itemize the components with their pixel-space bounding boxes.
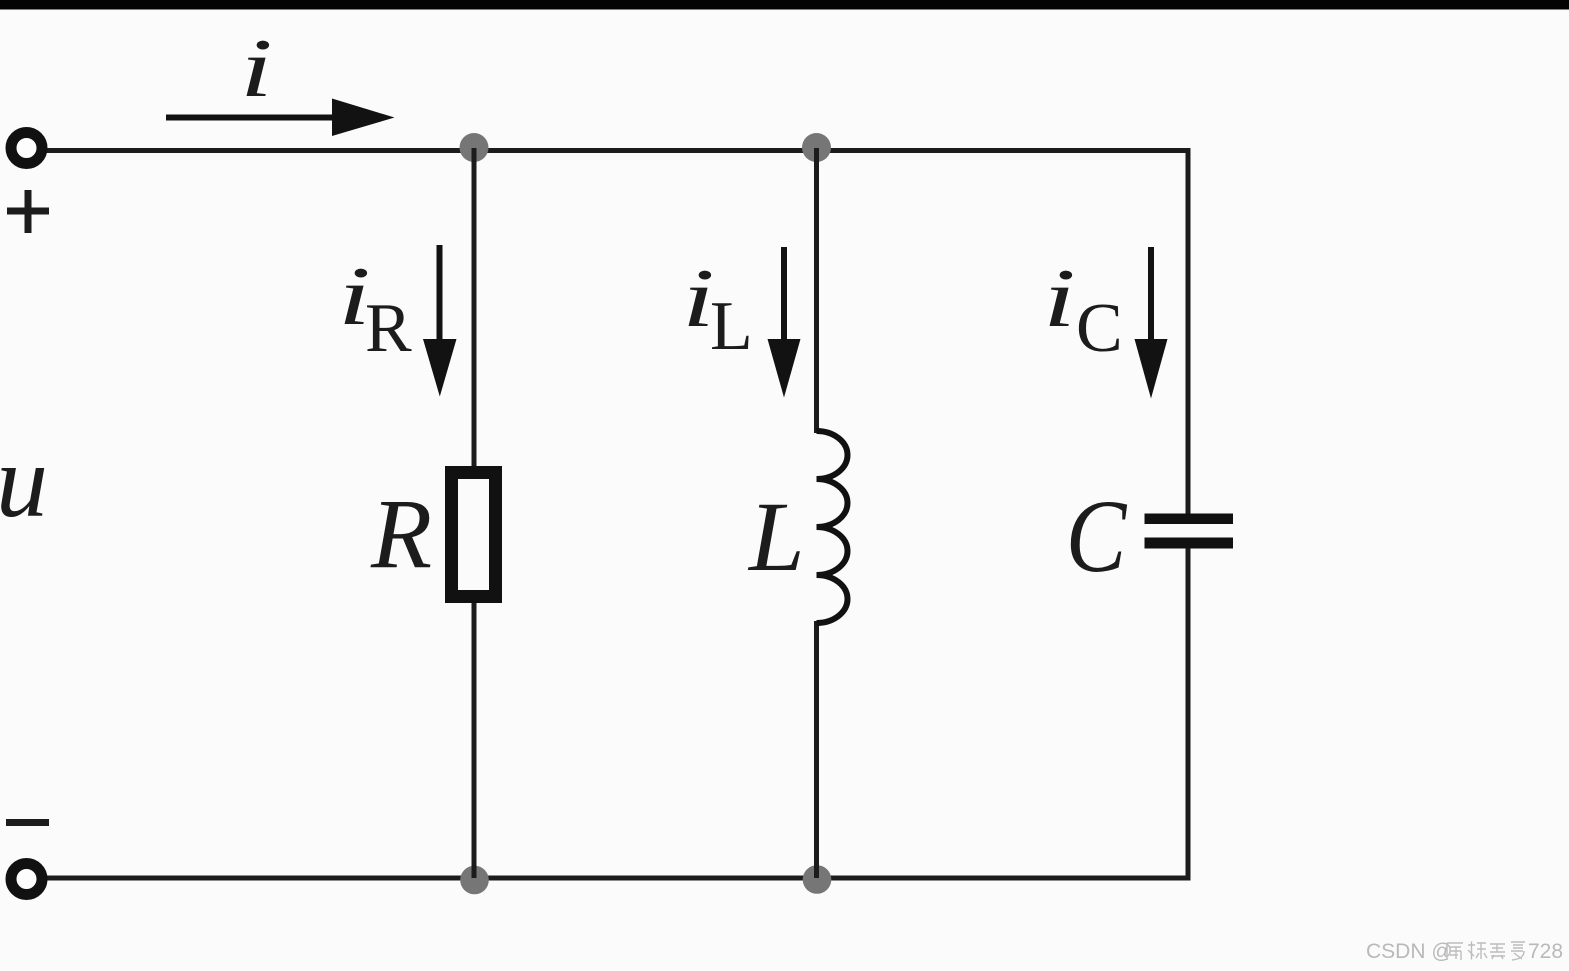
watermark CJK glyphs (drawn) bbox=[1447, 942, 1525, 961]
node B: top junction dot of L branch bbox=[802, 133, 831, 162]
current iC arrow bbox=[1148, 247, 1154, 345]
wire: C branch upper segment (right side) bbox=[1186, 148, 1191, 514]
inductor L (4 arc coil) bbox=[817, 431, 848, 623]
svg-text:L: L bbox=[710, 288, 753, 365]
current iL arrow bbox=[781, 247, 787, 345]
wire: L branch lower segment bbox=[814, 621, 819, 878]
current iR arrow bbox=[437, 245, 443, 345]
polarity mark: + bbox=[7, 190, 49, 233]
resistor R (rectangle symbol) bbox=[452, 473, 496, 597]
svg-text:C: C bbox=[1076, 290, 1123, 367]
svg-text:i: i bbox=[240, 22, 273, 115]
wire: top horizontal bus from source + terminal to top-right corner bbox=[46, 148, 1191, 153]
svg-text:CSDN @: CSDN @ bbox=[1366, 940, 1453, 963]
svg-text:R: R bbox=[365, 290, 412, 367]
polarity mark: - bbox=[6, 819, 49, 826]
wire: L branch upper segment bbox=[814, 148, 819, 433]
terminal: + source terminal (top-left) bbox=[11, 133, 42, 164]
svg-text:u: u bbox=[0, 424, 48, 539]
node C: bottom junction dot of R branch bbox=[460, 866, 489, 895]
top black banner bar bbox=[0, 0, 1569, 10]
wire: R branch lower segment bbox=[472, 603, 477, 879]
svg-text:L: L bbox=[747, 481, 805, 592]
node D: bottom junction dot of L branch bbox=[803, 865, 832, 894]
terminal: - source terminal (bottom-left) bbox=[11, 864, 42, 895]
svg-text:728: 728 bbox=[1528, 940, 1563, 963]
svg-text:C: C bbox=[1066, 479, 1128, 594]
wire: C branch lower segment bbox=[1186, 548, 1191, 878]
wire: bottom horizontal bus from source - terminal to bottom-right corner bbox=[46, 876, 1191, 881]
svg-text:i: i bbox=[1043, 252, 1076, 345]
svg-text:R: R bbox=[370, 478, 432, 589]
wire: R branch upper segment bbox=[472, 148, 477, 467]
node A: top junction dot of R branch bbox=[460, 133, 489, 162]
current i arrow (top) bbox=[166, 115, 345, 121]
capacitor C plates bbox=[1145, 514, 1234, 525]
